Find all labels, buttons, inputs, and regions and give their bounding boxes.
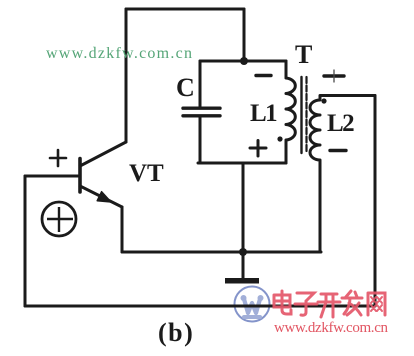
label (b): [158, 318, 194, 348]
inductor L2: [310, 96, 375, 253]
plus sign at base: [50, 150, 66, 166]
plus sign L2 top: [324, 70, 344, 82]
char fa: [342, 291, 362, 315]
char wang: [368, 293, 385, 315]
wire: collector riser: [125, 9, 128, 142]
transistor VT emitter: [80, 186, 122, 207]
watermark logo W (bottom right, under wires): [235, 287, 270, 322]
wire: tank bottom drop: [242, 163, 245, 252]
label C: [176, 73, 195, 103]
wire: bottom rail: [25, 305, 375, 308]
watermark red url bottom: [274, 320, 388, 337]
plus sign tank bottom: [250, 141, 266, 157]
transistor emitter arrowhead: [97, 192, 111, 202]
wire: base wire: [25, 175, 78, 178]
transistor VT base bar: [78, 159, 82, 193]
minus sign L2 bottom: [330, 149, 346, 152]
wire: tank left lower: [199, 117, 202, 163]
ground bar: [225, 278, 259, 284]
char zi: [295, 293, 317, 315]
label T: [295, 40, 312, 70]
label L2: [327, 110, 353, 138]
inductor L1: [286, 61, 295, 163]
node: tank top junction: [240, 57, 248, 65]
minus sign tank top: [256, 74, 271, 77]
char dian: [274, 291, 291, 314]
transistor VT collector: [80, 142, 126, 166]
wire: right rail: [374, 96, 377, 307]
capacitor C plates: [183, 106, 220, 109]
wire: emitter/ground rail: [122, 251, 321, 254]
wire: emitter drop: [121, 207, 124, 252]
wire: down to tank top: [243, 9, 246, 61]
phase dot L2: [321, 98, 326, 103]
source circle with plus: [42, 202, 76, 236]
wire: left rail: [24, 176, 27, 306]
watermark green url top: [46, 45, 193, 63]
wire: tank bottom rail: [198, 162, 286, 165]
char kai: [318, 294, 340, 317]
wire: tank top rail: [200, 60, 286, 63]
ground stem: [242, 252, 245, 278]
wire: top rail: [126, 8, 244, 11]
phase dot L1: [277, 136, 282, 141]
label VT: [129, 160, 164, 188]
transformer T core: [300, 77, 302, 153]
wire: tank left upper: [199, 61, 202, 107]
node: ground junction: [239, 248, 247, 256]
label L1: [250, 100, 276, 128]
